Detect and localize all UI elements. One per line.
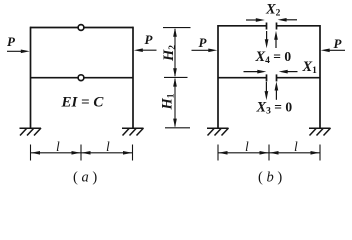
- svg-text:P: P: [199, 35, 208, 50]
- top cut right vertical arrow (up): [275, 36, 277, 48]
- middle cut left vertical arrow (down): [265, 82, 267, 95]
- fixed support left (b): [207, 128, 229, 136]
- dimension H2: up arrowhead: [173, 28, 177, 37]
- middle beam (b) left segment: [218, 77, 267, 79]
- top beam (a) left half: [30, 27, 78, 29]
- svg-text:P: P: [145, 32, 154, 47]
- hinge circle middle (a): [78, 75, 84, 81]
- svg-text:l: l: [56, 139, 60, 154]
- svg-text:H1: H1: [160, 93, 177, 110]
- force P right (b) arrow: [326, 49, 345, 51]
- svg-text:X1: X1: [302, 59, 318, 76]
- svg-text:X3 = 0: X3 = 0: [256, 100, 293, 117]
- svg-text:EI = C: EI = C: [61, 95, 105, 111]
- top beam (b) left cut tick: [266, 23, 268, 30]
- dimension H2: top extension tick: [163, 28, 191, 78]
- svg-text:P: P: [7, 34, 16, 49]
- dimension H2: down arrowhead: [173, 68, 177, 77]
- X2 right arrow: [283, 19, 297, 21]
- svg-text:H2: H2: [161, 45, 178, 62]
- X1 right arrow (middle cut): [284, 71, 298, 73]
- top beam (b) right cut tick: [276, 23, 278, 30]
- force P right (a) arrow: [139, 49, 157, 51]
- svg-text:( b ): ( b ): [258, 170, 282, 186]
- dimension H2: middle extension tick: [164, 76, 188, 78]
- dimension H1: line: [174, 79, 176, 127]
- left column (b): [217, 25, 219, 128]
- left column (a): [30, 27, 32, 128]
- top beam (b) left segment: [218, 25, 267, 27]
- dim (b) arrowhead right-out: [311, 151, 320, 155]
- dimension l l (b): ticks: [218, 145, 320, 161]
- X1 left arrow (middle cut): [244, 71, 262, 73]
- dim (a) arrowhead left-out: [31, 151, 40, 155]
- svg-text:l: l: [106, 139, 110, 154]
- fixed support right (b): [309, 128, 331, 136]
- X2 left arrow: [246, 19, 260, 21]
- dim (a) arrowhead mid-left: [72, 151, 81, 155]
- dim (b) arrowhead mid-right: [270, 151, 279, 155]
- dimension H1: down arrowhead: [173, 119, 177, 128]
- dim (b) arrowhead left-out: [219, 151, 228, 155]
- dimension l l (a): ticks: [31, 145, 133, 161]
- middle beam (a) left half: [30, 77, 78, 79]
- fixed support right (a): [122, 128, 144, 136]
- dimension H1: bottom extension tick: [165, 79, 190, 128]
- dimension l l (a): line: [31, 152, 133, 154]
- right column (a): [132, 27, 134, 128]
- svg-text:X2: X2: [265, 2, 281, 19]
- svg-text:X4 = 0: X4 = 0: [255, 49, 292, 66]
- svg-text:( a ): ( a ): [73, 170, 97, 186]
- right column (b): [319, 25, 321, 128]
- top cut left vertical arrow (down): [266, 31, 268, 43]
- hinge circle top (a): [78, 25, 84, 31]
- dimension H2: line: [174, 29, 176, 76]
- svg-text:P: P: [334, 36, 343, 51]
- top beam (a) right half: [84, 27, 134, 29]
- dimension H1: up arrowhead: [173, 78, 177, 87]
- middle beam (b) right cut tick: [276, 74, 278, 81]
- middle beam (a) right half: [84, 77, 134, 79]
- middle beam (b) right segment: [277, 77, 321, 79]
- middle beam (b) left cut tick: [266, 74, 268, 81]
- fixed support left (a): [20, 128, 42, 136]
- force P left (a) arrow: [7, 50, 24, 52]
- force P left (b) arrow: [192, 49, 212, 51]
- svg-text:l: l: [294, 139, 298, 154]
- dim (a) arrowhead right-out: [123, 151, 132, 155]
- dimension l l (b): line: [218, 152, 320, 154]
- dim (a) arrowhead mid-right: [82, 151, 91, 155]
- middle cut right vertical arrow (up): [275, 87, 277, 100]
- top beam (b) right segment: [277, 25, 321, 27]
- svg-text:l: l: [245, 139, 249, 154]
- dim (b) arrowhead mid-left: [260, 151, 269, 155]
